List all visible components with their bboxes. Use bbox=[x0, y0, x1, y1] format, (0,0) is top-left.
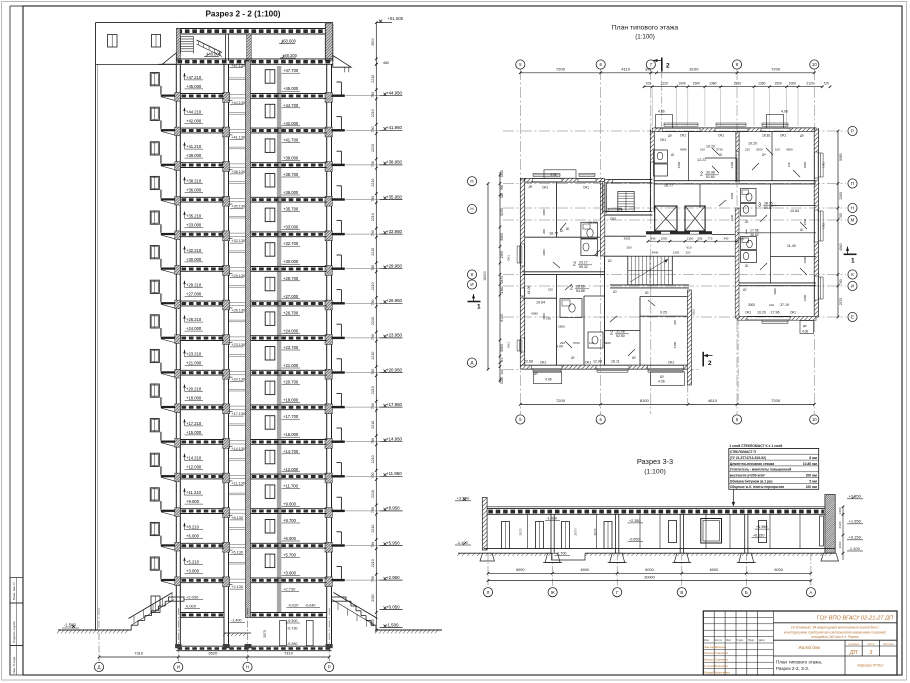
svg-text:1: 1 bbox=[477, 304, 481, 311]
svg-text:Д6: Д6 bbox=[571, 356, 575, 360]
svg-text:22.68: 22.68 bbox=[524, 360, 533, 364]
section axes bbox=[98, 608, 100, 662]
svg-text:1880: 1880 bbox=[738, 236, 745, 240]
left eave bbox=[162, 53, 176, 65]
entrance railing right bbox=[334, 593, 378, 619]
plan upper block left wall bbox=[649, 130, 651, 212]
svg-text:+12.000: +12.000 bbox=[283, 467, 299, 472]
plan right wall bbox=[813, 128, 815, 317]
plan horizontal axes bbox=[503, 130, 846, 132]
svg-text:+41.700: +41.700 bbox=[283, 137, 299, 142]
svg-text:720: 720 bbox=[823, 82, 829, 86]
storey +18.000 bbox=[150, 384, 159, 397]
svg-text:Разраб.: Разраб. bbox=[704, 670, 715, 674]
svg-text:2210: 2210 bbox=[371, 248, 375, 256]
svg-text:Утеплитель - минплиты повышенн: Утеплитель - минплиты повышенной bbox=[730, 468, 791, 472]
svg-text:+2.130: +2.130 bbox=[231, 585, 243, 589]
svg-text:+38.700: +38.700 bbox=[283, 172, 299, 177]
svg-text:(ТУ 21-5774713-519-92): (ТУ 21-5774713-519-92) bbox=[730, 456, 766, 460]
svg-text:55.32: 55.32 bbox=[579, 265, 588, 269]
svg-text:+29.950: +29.950 bbox=[386, 264, 403, 269]
svg-text:Савченко: Савченко bbox=[715, 658, 729, 662]
svg-text:110: 110 bbox=[500, 357, 504, 362]
svg-text:П: П bbox=[470, 179, 473, 184]
svg-text:4940: 4940 bbox=[839, 243, 843, 251]
svg-text:+38.950: +38.950 bbox=[386, 160, 403, 165]
plan top dimension line 2 bbox=[644, 86, 823, 88]
svg-text:2210: 2210 bbox=[371, 455, 375, 463]
svg-text:ОК1: ОК1 bbox=[680, 134, 686, 138]
svg-text:+5.130: +5.130 bbox=[231, 551, 243, 555]
svg-text:+39.000: +39.000 bbox=[283, 155, 299, 160]
svg-text:2210: 2210 bbox=[371, 559, 375, 567]
entrance railing left bbox=[129, 593, 173, 619]
svg-text:Н: Н bbox=[851, 206, 854, 211]
svg-text:1: 1 bbox=[745, 230, 748, 236]
svg-text:Дата: Дата bbox=[759, 639, 765, 642]
svg-text:Д3: Д3 bbox=[613, 290, 617, 294]
svg-text:Б: Б bbox=[745, 590, 748, 595]
svg-text:110: 110 bbox=[500, 193, 504, 198]
svg-text:+23.130: +23.130 bbox=[231, 343, 245, 347]
plan top dimension line 1 bbox=[520, 72, 814, 74]
plan corridor dim texts bbox=[648, 240, 737, 242]
svg-text:Р: Р bbox=[328, 665, 331, 670]
svg-text:-1.500: -1.500 bbox=[64, 623, 76, 628]
svg-text:390: 390 bbox=[500, 185, 504, 191]
svg-text:ОК1: ОК1 bbox=[780, 134, 786, 138]
svg-text:Подп.: Подп. bbox=[748, 639, 755, 642]
svg-text:1360: 1360 bbox=[500, 251, 504, 259]
svg-text:ОК1: ОК1 bbox=[668, 361, 674, 365]
plan left dimension lines bbox=[499, 172, 501, 383]
svg-text:+36.000: +36.000 bbox=[283, 190, 299, 195]
svg-text:4080: 4080 bbox=[680, 148, 687, 152]
svg-text:200 мм: 200 мм bbox=[806, 474, 818, 478]
plan left wing bottom wall bbox=[522, 364, 690, 366]
svg-text:Цементно-песчаная стяжка: Цементно-песчаная стяжка bbox=[730, 462, 775, 466]
svg-text:1220: 1220 bbox=[500, 170, 504, 177]
svg-text:+45.000: +45.000 bbox=[283, 86, 299, 91]
section facade outer wall bbox=[95, 23, 97, 630]
svg-text:2080: 2080 bbox=[371, 594, 375, 602]
section 3-3 right end wall bbox=[825, 495, 835, 554]
svg-text:390: 390 bbox=[645, 68, 651, 72]
svg-text:+47.700: +47.700 bbox=[283, 68, 299, 73]
svg-text:4680: 4680 bbox=[542, 209, 546, 216]
svg-text:4.06: 4.06 bbox=[550, 173, 557, 177]
plan bottom grid bubbles bbox=[516, 415, 525, 424]
svg-text:+35.210: +35.210 bbox=[186, 213, 202, 218]
plan balconies above right block bbox=[656, 115, 673, 129]
svg-text:Стадия: Стадия bbox=[848, 642, 859, 646]
svg-text:38.95: 38.95 bbox=[764, 202, 773, 206]
svg-text:3730: 3730 bbox=[716, 148, 723, 152]
svg-text:480: 480 bbox=[383, 61, 389, 65]
svg-text:Кол.уч: Кол.уч bbox=[715, 639, 723, 642]
svg-text:12.98: 12.98 bbox=[593, 360, 602, 364]
svg-text:100: 100 bbox=[769, 303, 774, 307]
svg-text:П: П bbox=[851, 181, 854, 186]
svg-text:-1.500: -1.500 bbox=[386, 622, 399, 627]
svg-text:7200: 7200 bbox=[771, 67, 781, 72]
svg-text:Консул.: Консул. bbox=[704, 658, 715, 662]
plan left wing top wall bbox=[522, 177, 604, 179]
svg-text:-1.430: -1.430 bbox=[547, 516, 557, 520]
svg-text:2600: 2600 bbox=[558, 325, 565, 329]
svg-text:3000: 3000 bbox=[542, 249, 546, 256]
roof note leader bbox=[732, 489, 734, 504]
svg-text:Жилой дом: Жилой дом bbox=[797, 645, 820, 650]
svg-text:1680: 1680 bbox=[803, 294, 807, 301]
svg-text:Д: Д bbox=[98, 665, 101, 670]
svg-text:36.62: 36.62 bbox=[750, 233, 759, 237]
svg-text:790: 790 bbox=[371, 334, 375, 340]
svg-text:1500: 1500 bbox=[774, 82, 782, 86]
svg-text:1500: 1500 bbox=[693, 82, 701, 86]
svg-text:790: 790 bbox=[371, 403, 375, 409]
plan wall x688 with hatch bbox=[687, 290, 691, 385]
svg-text:+33.000: +33.000 bbox=[186, 222, 202, 227]
svg-text:+24.000: +24.000 bbox=[283, 328, 299, 333]
section 3-3 right window column bbox=[820, 516, 824, 546]
svg-text:Д1: Д1 bbox=[719, 153, 723, 157]
svg-text:7310: 7310 bbox=[284, 651, 294, 656]
svg-text:4600: 4600 bbox=[677, 161, 681, 168]
storey +45.000 bbox=[150, 73, 159, 86]
storey +24.000 bbox=[150, 315, 159, 328]
svg-text:Д5: Д5 bbox=[803, 324, 807, 328]
svg-text:3600: 3600 bbox=[803, 218, 807, 225]
svg-text:+1.950: +1.950 bbox=[756, 525, 767, 529]
svg-text:220: 220 bbox=[745, 148, 750, 152]
plan elevator front wall bbox=[646, 232, 712, 235]
svg-text:В: В bbox=[680, 590, 683, 595]
svg-text:Д1: Д1 bbox=[566, 227, 570, 231]
full height wall lines bbox=[175, 64, 177, 648]
plan upper-right block top wall bbox=[654, 127, 816, 129]
svg-text:+11.950: +11.950 bbox=[386, 471, 402, 476]
svg-text:ОК1: ОК1 bbox=[585, 361, 591, 365]
svg-text:2210: 2210 bbox=[371, 490, 375, 498]
plan bottom-right block bottom wall bbox=[739, 316, 816, 318]
svg-text:площадью 240 м²а в г. Рязани: площадью 240 м²а в г. Рязани bbox=[811, 635, 859, 639]
svg-text:+32.950: +32.950 bbox=[386, 229, 403, 234]
svg-text:Д1: Д1 bbox=[560, 229, 564, 233]
svg-text:3: 3 bbox=[758, 203, 761, 209]
svg-text:План типового этажа: План типового этажа bbox=[612, 25, 679, 32]
plan top witness lines bbox=[651, 89, 653, 127]
svg-text:2210: 2210 bbox=[371, 386, 375, 394]
storey +9.000 bbox=[150, 488, 159, 501]
svg-text:-1.100: -1.100 bbox=[457, 540, 469, 545]
svg-text:ОК1: ОК1 bbox=[507, 342, 511, 348]
svg-text:Листов: Листов bbox=[882, 642, 894, 646]
svg-text:+41.950: +41.950 bbox=[386, 125, 403, 130]
svg-text:4980: 4980 bbox=[773, 288, 777, 295]
svg-text:+30.000: +30.000 bbox=[186, 257, 202, 262]
svg-text:54.88: 54.88 bbox=[576, 289, 585, 293]
svg-text:(1:100): (1:100) bbox=[635, 34, 655, 41]
plan section mark 2 top bbox=[661, 58, 663, 72]
storey +36.000 bbox=[150, 176, 159, 189]
storey +33.000 bbox=[150, 211, 159, 224]
section 3-3 roof slab bbox=[487, 508, 825, 510]
plan central block top wall bbox=[607, 179, 653, 181]
svg-text:790: 790 bbox=[371, 542, 375, 548]
svg-text:Фомина: Фомина bbox=[715, 645, 726, 649]
section 3-3 interior doors left half bbox=[502, 522, 510, 549]
section 3-3 pit bbox=[552, 553, 586, 560]
plan small stair upper bbox=[618, 192, 634, 212]
svg-text:2: 2 bbox=[700, 172, 703, 178]
svg-text:2: 2 bbox=[570, 286, 573, 292]
svg-text:+20.210: +20.210 bbox=[186, 386, 202, 391]
plan interior walls left wing bbox=[556, 182, 558, 237]
machine room left wall bbox=[176, 29, 180, 62]
svg-text:+18.000: +18.000 bbox=[283, 398, 299, 403]
svg-text:37.19: 37.19 bbox=[780, 303, 789, 307]
svg-text:30000: 30000 bbox=[644, 575, 655, 579]
svg-text:6000: 6000 bbox=[774, 568, 782, 572]
svg-text:1000: 1000 bbox=[789, 82, 797, 86]
svg-text:790: 790 bbox=[371, 473, 375, 479]
svg-text:+20.700: +20.700 bbox=[283, 380, 299, 385]
svg-text:+9.000: +9.000 bbox=[186, 499, 200, 504]
svg-text:ГОУ ВПО ВГАСУ 02-21-27 ДП: ГОУ ВПО ВГАСУ 02-21-27 ДП bbox=[817, 616, 894, 622]
svg-text:+3.000: +3.000 bbox=[186, 568, 200, 573]
svg-text:4.06: 4.06 bbox=[545, 378, 552, 382]
svg-text:2070: 2070 bbox=[593, 528, 597, 535]
svg-text:+8.210: +8.210 bbox=[186, 525, 200, 530]
svg-text:6000: 6000 bbox=[581, 568, 589, 572]
svg-text:Обмазка битумом за 1 раз: Обмазка битумом за 1 раз bbox=[730, 479, 773, 483]
svg-text:Д1: Д1 bbox=[745, 220, 749, 224]
svg-text:+42.000: +42.000 bbox=[283, 121, 299, 126]
svg-text:+11.700: +11.700 bbox=[283, 483, 299, 488]
svg-text:790: 790 bbox=[839, 279, 843, 285]
right eave bbox=[333, 56, 351, 68]
svg-text:+27.000: +27.000 bbox=[186, 292, 202, 297]
plan upper step wall bbox=[605, 211, 653, 213]
svg-text:220: 220 bbox=[548, 288, 553, 292]
svg-text:+15.000: +15.000 bbox=[186, 430, 202, 435]
svg-text:52.60: 52.60 bbox=[706, 175, 715, 179]
plan vertical axes bbox=[519, 69, 521, 414]
svg-text:220 мм: 220 мм bbox=[806, 485, 818, 489]
svg-text:Н: Н bbox=[246, 665, 249, 670]
svg-text:+5.700: +5.700 bbox=[283, 553, 297, 558]
svg-text:+41.210: +41.210 bbox=[186, 144, 202, 149]
svg-text:2070: 2070 bbox=[574, 528, 578, 535]
svg-text:+39.000: +39.000 bbox=[186, 153, 202, 158]
svg-text:ОК1: ОК1 bbox=[822, 223, 826, 229]
svg-text:Савченко: Савченко bbox=[715, 651, 729, 655]
svg-text:30.98: 30.98 bbox=[706, 171, 715, 175]
svg-text:+35.130: +35.130 bbox=[231, 205, 245, 209]
svg-text:+44.950: +44.950 bbox=[386, 91, 403, 96]
svg-text:-1.100: -1.100 bbox=[849, 546, 861, 551]
svg-text:ОК1: ОК1 bbox=[790, 311, 796, 315]
svg-text:790: 790 bbox=[371, 576, 375, 582]
svg-text:2210: 2210 bbox=[371, 317, 375, 325]
svg-text:130: 130 bbox=[787, 162, 791, 167]
svg-text:18.77: 18.77 bbox=[549, 232, 558, 236]
section 3-3 right wall footing bbox=[821, 553, 839, 561]
svg-text:940: 940 bbox=[651, 236, 656, 240]
svg-text:И: И bbox=[177, 665, 180, 670]
svg-text:+2.730: +2.730 bbox=[283, 587, 296, 592]
machine room top slab bbox=[176, 28, 333, 30]
facade entrance door bbox=[151, 596, 160, 613]
plan main stair bbox=[628, 256, 673, 285]
plan door arcs left wing bbox=[560, 223, 566, 230]
svg-text:6520: 6520 bbox=[208, 651, 218, 656]
svg-text:+17.700: +17.700 bbox=[283, 414, 299, 419]
svg-text:790: 790 bbox=[371, 127, 375, 133]
svg-text:Д6: Д6 bbox=[632, 356, 636, 360]
plan left wing top windows bbox=[533, 176, 560, 178]
svg-text:12.21: 12.21 bbox=[697, 158, 706, 162]
svg-text:-1.400: -1.400 bbox=[231, 619, 241, 623]
basement walls below ground slab bbox=[175, 644, 181, 648]
machine room stair core wall bbox=[247, 34, 252, 61]
svg-text:100: 100 bbox=[673, 320, 677, 325]
svg-text:Взам. инв. N: Взам. инв. N bbox=[12, 582, 16, 600]
svg-text:5060: 5060 bbox=[500, 344, 504, 352]
svg-text:N док: N док bbox=[737, 639, 744, 642]
storey +3.000 bbox=[150, 557, 159, 570]
svg-text:ОК2: ОК2 bbox=[692, 309, 696, 315]
svg-text:Д4: Д4 bbox=[762, 153, 766, 157]
svg-text:6000: 6000 bbox=[710, 568, 718, 572]
svg-text:16.11: 16.11 bbox=[611, 360, 620, 364]
svg-text:7200: 7200 bbox=[556, 398, 566, 403]
plan right grid bubbles bbox=[848, 126, 857, 135]
entrance porch right bbox=[332, 597, 347, 601]
svg-text:10: 10 bbox=[812, 417, 817, 422]
svg-text:Д1: Д1 bbox=[745, 264, 749, 268]
svg-text:+51.600: +51.600 bbox=[388, 16, 404, 21]
svg-text:+24.000: +24.000 bbox=[186, 326, 202, 331]
svg-text:Е: Е bbox=[851, 315, 854, 320]
svg-text:+6.000: +6.000 bbox=[283, 536, 297, 541]
basement door 2 bbox=[306, 621, 313, 646]
svg-text:2210: 2210 bbox=[371, 144, 375, 152]
svg-text:1360: 1360 bbox=[500, 286, 504, 293]
svg-text:2210: 2210 bbox=[371, 421, 375, 429]
svg-text:+8.700: +8.700 bbox=[283, 518, 297, 523]
svg-text:М: М bbox=[851, 218, 855, 223]
plan bath fixtures left wing bbox=[581, 222, 598, 238]
svg-text:+27.000: +27.000 bbox=[283, 294, 299, 299]
section bottom dimension line bbox=[99, 656, 329, 658]
svg-text:1 слой СТЕКЛОМАСТ К х 1 слой: 1 слой СТЕКЛОМАСТ К х 1 слой bbox=[729, 444, 782, 448]
svg-text:2: 2 bbox=[573, 262, 576, 268]
svg-text:Д5: Д5 bbox=[645, 291, 649, 295]
svg-text:11.40: 11.40 bbox=[787, 244, 796, 248]
svg-text:ОК1: ОК1 bbox=[583, 186, 589, 190]
title block stage cells bbox=[844, 640, 846, 656]
svg-text:И: И bbox=[470, 282, 473, 287]
svg-text:790: 790 bbox=[371, 507, 375, 513]
title block outer frame bbox=[703, 611, 897, 675]
svg-text:1220: 1220 bbox=[500, 377, 504, 384]
svg-text:3000: 3000 bbox=[748, 303, 755, 307]
svg-text:2870: 2870 bbox=[500, 276, 504, 284]
svg-text:4.06: 4.06 bbox=[658, 110, 665, 114]
svg-text:2500: 2500 bbox=[756, 148, 763, 152]
plan corridor walls bbox=[605, 235, 647, 237]
svg-text:+20.130: +20.130 bbox=[231, 378, 245, 382]
plan left wall windows bbox=[521, 246, 523, 263]
svg-text:+26.950: +26.950 bbox=[386, 298, 403, 303]
svg-text:2970: 2970 bbox=[263, 630, 267, 638]
svg-text:3700: 3700 bbox=[573, 341, 580, 345]
svg-text:1000: 1000 bbox=[678, 82, 686, 86]
svg-text:Лист: Лист bbox=[866, 642, 875, 646]
svg-text:+29.130: +29.130 bbox=[231, 274, 245, 278]
svg-text:+47.210: +47.210 bbox=[186, 75, 202, 80]
svg-text:16 этажный, 94 квартирный моно: 16 этажный, 94 квартирный монолитный жил… bbox=[791, 626, 880, 630]
section 3-3 dimension lines bbox=[488, 572, 811, 574]
plan section mark 2 bottom bbox=[702, 352, 704, 367]
svg-text:+2.030: +2.030 bbox=[186, 595, 199, 600]
plan balcony above top-left wall bbox=[544, 170, 576, 178]
svg-text:100: 100 bbox=[775, 148, 780, 152]
svg-text:+21.000: +21.000 bbox=[186, 361, 202, 366]
plan left grid bubbles bbox=[467, 177, 476, 186]
machine room parapet top bbox=[96, 22, 177, 24]
frame left margin line bbox=[9, 6, 11, 675]
svg-text:1: 1 bbox=[851, 258, 855, 265]
svg-text:28.56: 28.56 bbox=[576, 285, 585, 289]
svg-text:2: 2 bbox=[610, 331, 613, 337]
svg-text:+41.130: +41.130 bbox=[231, 135, 245, 139]
entrance stair right bbox=[346, 600, 351, 602]
svg-text:+33.000: +33.000 bbox=[283, 225, 299, 230]
svg-text:6000: 6000 bbox=[516, 568, 524, 572]
svg-text:Реценз.: Реценз. bbox=[704, 651, 715, 655]
svg-text:16300: 16300 bbox=[483, 271, 487, 281]
svg-text:1300: 1300 bbox=[673, 251, 680, 255]
svg-text:+3.000: +3.000 bbox=[283, 571, 297, 576]
plan right dimension line bbox=[837, 131, 839, 317]
svg-text:4380: 4380 bbox=[531, 312, 538, 316]
svg-text:Л: Л bbox=[487, 590, 490, 595]
svg-text:2: 2 bbox=[666, 63, 670, 70]
svg-text:2120: 2120 bbox=[806, 82, 814, 86]
plan balcony bottom-left bbox=[534, 372, 562, 384]
svg-text:6000: 6000 bbox=[645, 568, 653, 572]
svg-text:+20.950: +20.950 bbox=[386, 367, 403, 372]
svg-text:2210: 2210 bbox=[371, 282, 375, 290]
svg-text:ОК1: ОК1 bbox=[542, 186, 548, 190]
svg-text:1380: 1380 bbox=[709, 82, 717, 86]
svg-text:7200: 7200 bbox=[771, 398, 781, 403]
plan right wall windows bbox=[817, 153, 819, 177]
entrance stair left bbox=[165, 600, 172, 602]
svg-text:10-80 мм: 10-80 мм bbox=[803, 462, 818, 466]
svg-text:2: 2 bbox=[708, 360, 712, 367]
svg-text:7310: 7310 bbox=[134, 651, 144, 656]
basement floor slab bbox=[176, 645, 331, 647]
svg-text:17.96: 17.96 bbox=[750, 229, 759, 233]
svg-text:1630: 1630 bbox=[730, 214, 734, 221]
svg-text:+2.950: +2.950 bbox=[386, 575, 400, 580]
svg-text:10.20: 10.20 bbox=[757, 311, 766, 315]
ground line right bbox=[376, 629, 443, 631]
